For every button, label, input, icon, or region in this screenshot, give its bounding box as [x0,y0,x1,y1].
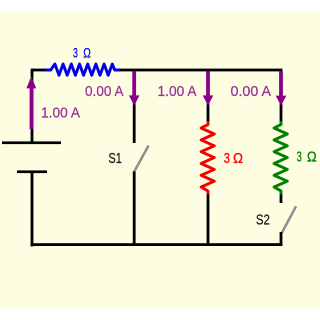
svg-text:Ω: Ω [233,150,243,167]
resistor R2 3ohm red vertical [201,121,214,195]
svg-text:1.00 A: 1.00 A [158,83,197,100]
svg-text:3: 3 [224,150,230,167]
wire S1 branch lower [133,172,136,246]
current arrow I4 down 0.00 A [276,71,287,106]
svg-text:3: 3 [73,45,78,60]
svg-text:0.00 A: 0.00 A [85,83,124,100]
wire R2 branch lower [207,195,210,246]
resistor R1 3ohm blue [46,64,120,75]
battery B1 bottom plate [17,170,47,173]
wire bottom rail [31,243,283,246]
svg-text:0.00 A: 0.00 A [231,83,272,100]
resistor R3 3ohm green vertical [274,121,287,195]
current arrow I2 down 0.00 A [129,71,140,105]
label R1 value 3 ohm [73,45,91,60]
wire S1 branch upper [133,70,136,143]
svg-text:S2: S2 [256,212,270,229]
current arrow I3 down 1.00 A [203,71,214,105]
wire battery bottom lead [31,172,34,247]
svg-text:3: 3 [297,148,302,165]
svg-text:Ω: Ω [307,148,317,165]
wire top rail left segment [32,69,46,72]
battery B1 top plate [2,141,61,144]
label R3 value 3 ohm [297,148,317,165]
wire R3 branch upper [280,70,283,121]
current arrow I1 up 1.00 A [26,76,36,129]
wire S2 top stub [280,195,283,204]
wire S2 bottom stub [280,232,283,246]
svg-text:S1: S1 [108,150,122,167]
wire top rail right segment [120,69,283,72]
wire R2 branch upper [207,70,210,121]
label R2 value 3 ohm [224,150,243,167]
switch S2 blade open [282,206,296,233]
svg-text:Ω: Ω [83,45,91,60]
switch S1 blade open [134,146,149,173]
svg-text:1.00 A: 1.00 A [41,105,80,122]
wire left vertical (battery top lead) [31,69,34,144]
